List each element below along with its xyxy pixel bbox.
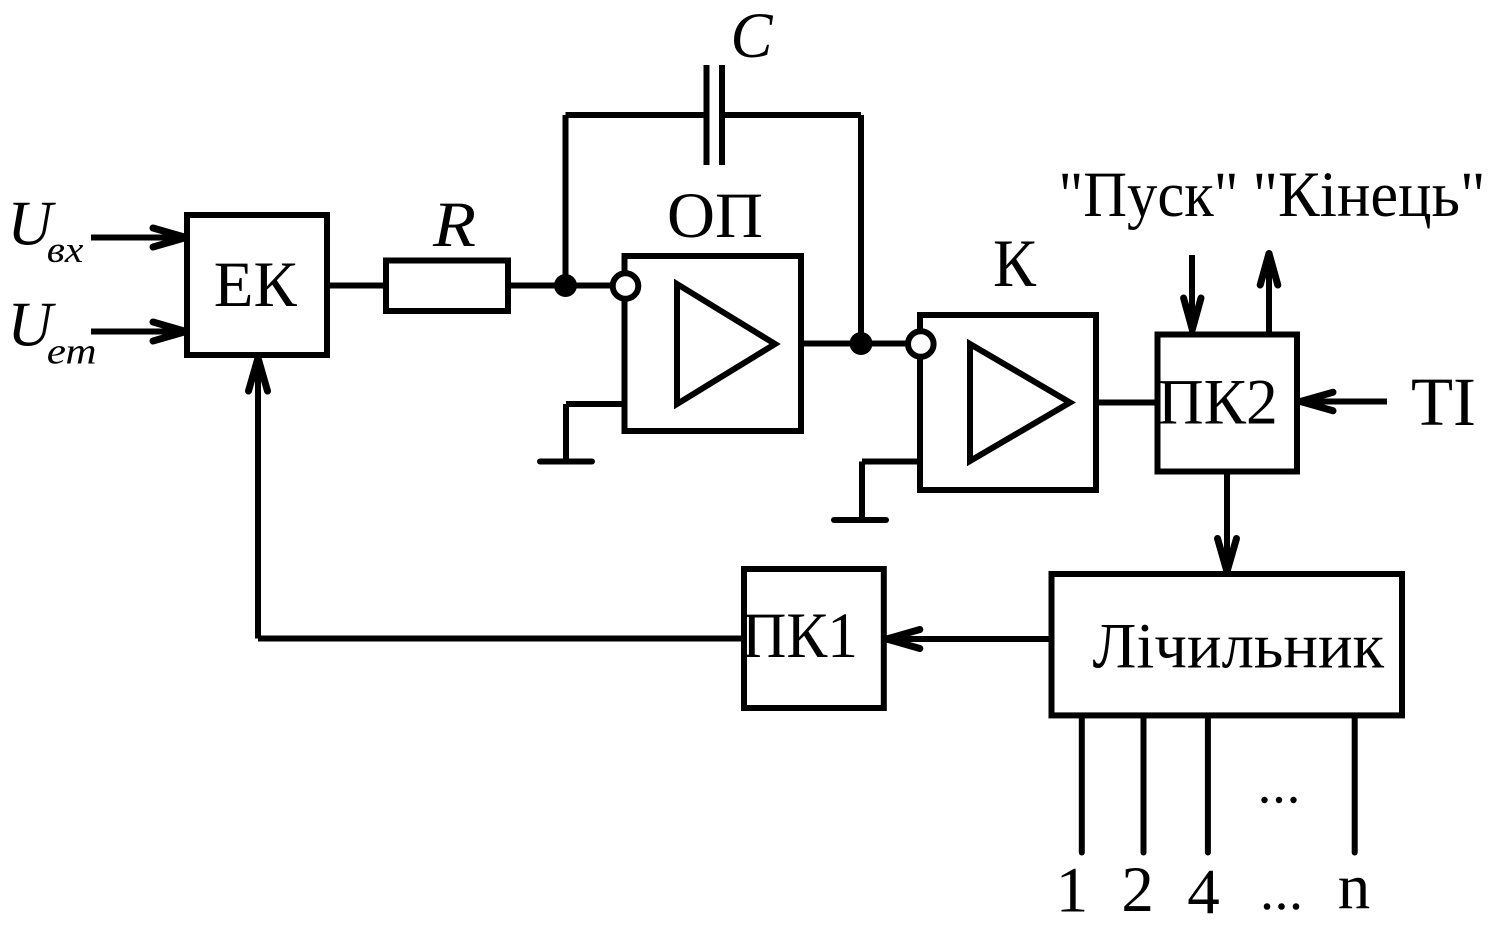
- svg-text:R: R: [432, 189, 476, 261]
- svg-text:вх: вх: [47, 230, 84, 271]
- svg-text:4: 4: [1187, 857, 1220, 929]
- svg-text:"Пуск": "Пуск": [1059, 159, 1239, 231]
- svg-text:n: n: [1338, 852, 1371, 924]
- svg-text:2: 2: [1121, 854, 1154, 926]
- svg-text:К: К: [993, 225, 1037, 301]
- svg-text:ПК1: ПК1: [742, 600, 858, 672]
- svg-text:ЕК: ЕК: [214, 249, 298, 321]
- svg-text:ОП: ОП: [667, 180, 763, 252]
- svg-text:1: 1: [1056, 855, 1089, 927]
- svg-text:C: C: [731, 0, 774, 72]
- svg-text:"Кінець": "Кінець": [1253, 159, 1486, 231]
- svg-text:Лічильник: Лічильник: [1093, 610, 1385, 682]
- svg-text:ТІ: ТІ: [1411, 364, 1476, 440]
- svg-text:ПК2: ПК2: [1158, 366, 1278, 438]
- svg-text:ет: ет: [47, 332, 97, 373]
